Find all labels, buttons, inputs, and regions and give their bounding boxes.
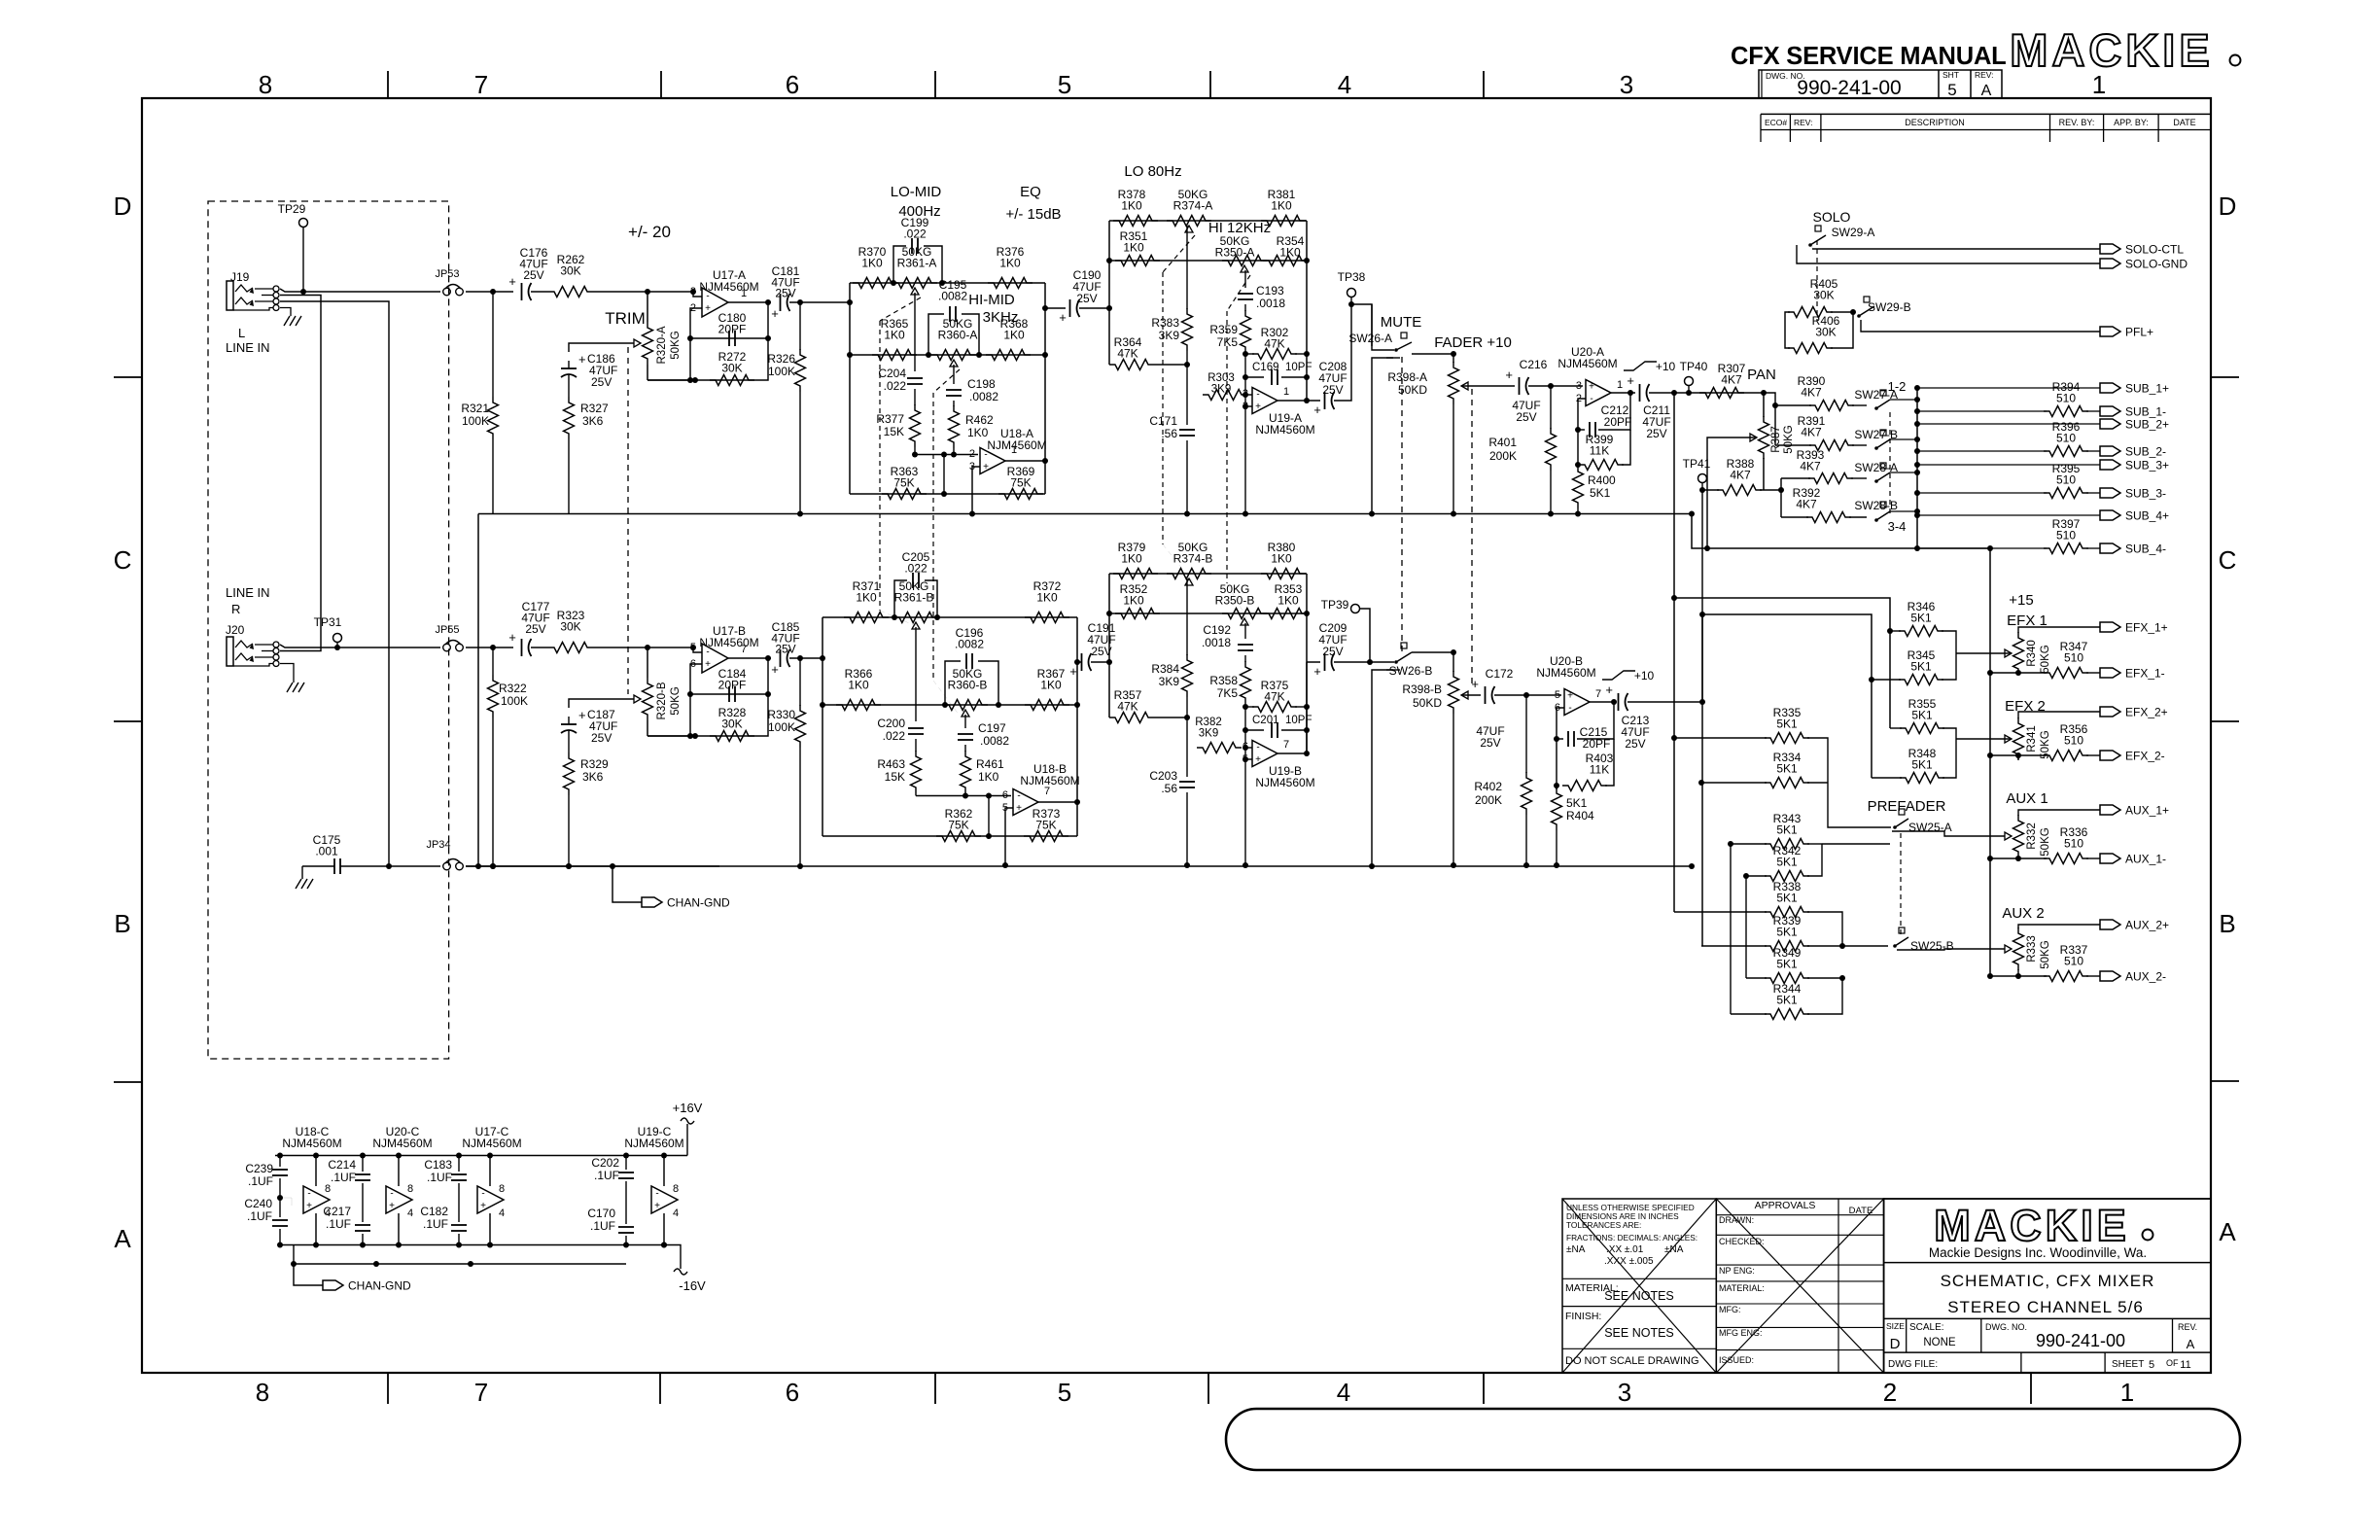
svg-text:.1UF: .1UF: [331, 1171, 356, 1184]
svg-text:TP31: TP31: [314, 615, 342, 629]
resistor R376: [988, 278, 1032, 289]
power gnd rail: [280, 1244, 664, 1246]
svg-text:1K0: 1K0: [884, 329, 905, 342]
svg-text:SCALE:: SCALE:: [1909, 1322, 1944, 1333]
svg-text:.0018: .0018: [1256, 297, 1285, 310]
svg-text:30K: 30K: [1815, 326, 1836, 339]
ground at J20 sleeve: [280, 664, 294, 683]
svg-text:47K: 47K: [1264, 690, 1284, 704]
svg-text:R377: R377: [876, 412, 904, 426]
wire to U18-B pin6: [916, 795, 1011, 797]
trim wiper wire to C186: [569, 343, 634, 352]
solo ctl wire: [1812, 248, 2100, 250]
plus10 symbol B: [1602, 671, 1635, 680]
svg-text:-: -: [1017, 791, 1020, 802]
capacitor C190: [1069, 299, 1071, 317]
wire C208 up to TP38 line: [1334, 304, 1351, 401]
capacitor C185: [780, 649, 782, 667]
connector SUB_2+: [2100, 419, 2120, 429]
svg-text:SUB_1+: SUB_1+: [2125, 382, 2169, 396]
svg-text:25V: 25V: [1322, 383, 1343, 397]
svg-text:NJM4560M: NJM4560M: [699, 636, 758, 649]
svg-text:4K7: 4K7: [1800, 460, 1821, 473]
svg-text:7: 7: [1283, 739, 1289, 751]
dashed gang solo switches: [1816, 240, 1818, 321]
svg-text:510: 510: [2056, 529, 2076, 542]
post fader buses: [1671, 390, 1677, 396]
gnd bus junction dots: [566, 863, 572, 869]
svg-text:PFL+: PFL+: [2125, 326, 2153, 339]
svg-text:1K0: 1K0: [861, 257, 883, 270]
svg-text:25V: 25V: [1646, 427, 1666, 440]
resistor R379: [1113, 569, 1158, 579]
pot R360-B: [942, 702, 948, 708]
U18-C pin8 wire: [315, 1156, 317, 1187]
svg-text:+: +: [1567, 691, 1573, 702]
U18-C pin4 wire: [315, 1213, 317, 1245]
svg-text:NJM4560M: NJM4560M: [624, 1137, 683, 1150]
svg-text:APPROVALS: APPROVALS: [1755, 1200, 1816, 1211]
svg-text:SW29-A: SW29-A: [1832, 226, 1875, 239]
jumper JP34: [443, 862, 451, 870]
EQ A mid row: [850, 354, 1045, 356]
svg-text:C: C: [114, 545, 132, 575]
svg-text:510: 510: [2056, 473, 2076, 487]
resistor R358: [1244, 655, 1246, 662]
sub2+ wire: [1914, 421, 1920, 427]
svg-text:100K: 100K: [768, 720, 795, 734]
svg-text:.1UF: .1UF: [594, 1169, 619, 1182]
svg-text:R350-B: R350-B: [1215, 594, 1255, 608]
bus from B fader out down: [1701, 614, 1703, 946]
svg-text:510: 510: [2064, 955, 2083, 968]
dashed gang SW25: [1900, 833, 1902, 938]
resistor R461: [964, 745, 966, 752]
svg-text:R330: R330: [767, 708, 795, 721]
svg-text:ISSUED:: ISSUED:: [1719, 1355, 1754, 1365]
mute shunt contact: [1386, 357, 1400, 359]
resistor R336: [2017, 857, 2019, 858]
resistor R337: [2017, 969, 2019, 976]
LO80 B block left edge: [1108, 574, 1110, 717]
capacitor C196: [945, 661, 961, 705]
connector SUB_4-: [2100, 543, 2120, 553]
sub3+ wire: [1914, 462, 1920, 468]
svg-text:R398-A: R398-A: [1387, 370, 1427, 384]
svg-text:R374-A: R374-A: [1173, 199, 1213, 213]
svg-text:R360-A: R360-A: [938, 329, 978, 342]
svg-text:LO 80Hz: LO 80Hz: [1124, 163, 1181, 180]
svg-text:4: 4: [673, 1207, 679, 1219]
resistor R339: [1765, 941, 1809, 952]
op-amp U19-A: [1252, 388, 1277, 414]
svg-text:DWG FILE:: DWG FILE:: [1888, 1359, 1938, 1370]
resistor R322: [492, 647, 494, 675]
svg-text:3K6: 3K6: [582, 414, 604, 428]
svg-text:1: 1: [1617, 379, 1623, 391]
svg-text:TP29: TP29: [278, 202, 306, 216]
bus from A fader out down: [1673, 393, 1675, 912]
svg-text:.0082: .0082: [980, 734, 1009, 748]
svg-text:5: 5: [1058, 70, 1071, 99]
svg-text:1K0: 1K0: [1271, 199, 1292, 213]
svg-text:C203: C203: [1149, 769, 1177, 783]
svg-text:DWG. NO.: DWG. NO.: [1985, 1322, 2027, 1332]
aux2 send wire: [1897, 949, 2005, 950]
svg-text:TP39: TP39: [1321, 598, 1349, 612]
svg-text:4: 4: [1337, 1378, 1350, 1407]
svg-text:EFX_2-: EFX_2-: [2125, 750, 2165, 763]
svg-text:AUX_2+: AUX_2+: [2125, 919, 2169, 932]
svg-text:R327: R327: [580, 402, 609, 415]
connector EFX_2+: [2100, 707, 2120, 717]
svg-text:3: 3: [1576, 380, 1582, 392]
svg-text:+: +: [771, 662, 779, 677]
svg-text:+16V: +16V: [673, 1101, 703, 1115]
svg-text:MFG:: MFG:: [1719, 1305, 1741, 1314]
svg-text:L: L: [238, 326, 245, 340]
U20-B output: [1590, 701, 1614, 703]
resistor R330: [799, 658, 801, 706]
svg-text:NJM4560M: NJM4560M: [282, 1137, 341, 1150]
svg-text:D: D: [1890, 1336, 1901, 1352]
svg-text:LINE IN: LINE IN: [226, 340, 270, 355]
sub assign feed wires: [1764, 393, 1775, 445]
svg-text:10PF: 10PF: [1285, 715, 1312, 726]
capacitor C201: [1244, 707, 1246, 730]
svg-text:APP. BY:: APP. BY:: [2114, 118, 2149, 127]
PAN pot R387: [1763, 393, 1765, 417]
svg-text:SUB_2-: SUB_2-: [2125, 445, 2166, 459]
svg-text:OF: OF: [2166, 1358, 2179, 1368]
resistor R399: [1579, 460, 1624, 471]
resistor R370: [853, 278, 897, 289]
svg-text:NONE: NONE: [1923, 1337, 1956, 1348]
capacitor C187: [561, 723, 577, 725]
wire into pin3 U17-A: [647, 292, 702, 297]
svg-text:R320-A: R320-A: [656, 326, 668, 364]
svg-text:J20: J20: [226, 623, 245, 637]
fader pot R398-A: [1449, 362, 1459, 404]
svg-text:5: 5: [1947, 81, 1956, 99]
capacitor C203: [1186, 697, 1188, 777]
svg-text:4K7: 4K7: [1801, 386, 1822, 400]
svg-text:SCHEMATIC, CFX MIXER: SCHEMATIC, CFX MIXER: [1941, 1272, 2155, 1290]
resistor R323: [548, 643, 593, 653]
resistor R326: [799, 302, 801, 350]
wire R262 to trim node: [593, 291, 647, 293]
U19-A pin3 riser to bus: [1245, 405, 1252, 407]
svg-text:2: 2: [1883, 1378, 1897, 1407]
svg-text:5K1: 5K1: [1776, 958, 1798, 971]
svg-text:1-2: 1-2: [1888, 379, 1907, 394]
svg-text:EQ: EQ: [1020, 184, 1041, 200]
svg-text:A: A: [1981, 83, 1992, 99]
svg-text:1K0: 1K0: [967, 426, 989, 439]
svg-text:SUB_3-: SUB_3-: [2125, 487, 2166, 501]
jumper JP55: [443, 644, 451, 651]
svg-text:TP40: TP40: [1680, 360, 1708, 373]
svg-text:SUB_4+: SUB_4+: [2125, 509, 2169, 523]
svg-text:EFX_1-: EFX_1-: [2125, 667, 2165, 681]
svg-text:R402: R402: [1474, 780, 1502, 793]
trim pot R320-B: [647, 647, 648, 678]
resistor R402: [1525, 695, 1527, 773]
input section dashed box: [208, 201, 449, 1059]
svg-text:LINE IN: LINE IN: [226, 585, 270, 600]
switch SW25-A: [1893, 825, 1897, 829]
resistor R364: [1108, 364, 1110, 366]
switch B out to fader: [1412, 652, 1453, 672]
svg-text:SEE NOTES: SEE NOTES: [1604, 1289, 1674, 1303]
svg-text:±NA: ±NA: [1664, 1244, 1684, 1255]
resistor R262: [548, 287, 593, 297]
svg-text:JP34: JP34: [426, 839, 450, 851]
svg-text:20PF: 20PF: [718, 679, 747, 692]
svg-text:510: 510: [2064, 651, 2083, 665]
svg-text:25V: 25V: [1625, 737, 1645, 751]
svg-text:+: +: [1255, 402, 1261, 412]
resistor R372: [1025, 612, 1069, 623]
svg-text:+: +: [508, 630, 516, 645]
wire J19 ring bus down: [280, 296, 321, 651]
resistor R365: [872, 350, 917, 361]
svg-text:HI-MID: HI-MID: [968, 292, 1015, 308]
resistor R377: [914, 389, 916, 405]
svg-text:5K1: 5K1: [1776, 892, 1798, 905]
svg-text:D: D: [114, 192, 132, 221]
U19-A output: [1277, 400, 1307, 402]
svg-text:R341: R341: [2026, 725, 2038, 752]
svg-text:4: 4: [499, 1207, 505, 1219]
svg-text:11K: 11K: [1590, 444, 1609, 458]
connector AUX_2-: [2100, 971, 2120, 981]
dashed gang HI pots: [1227, 275, 1250, 311]
svg-text:NJM4560M: NJM4560M: [1557, 357, 1617, 370]
svg-text:7: 7: [474, 1378, 488, 1407]
svg-text:8: 8: [325, 1183, 331, 1195]
switch SW29-B: [1857, 314, 1861, 318]
svg-text:R401: R401: [1488, 436, 1517, 449]
svg-text:20PF: 20PF: [1604, 415, 1632, 429]
svg-text:+: +: [1313, 664, 1321, 679]
svg-text:1: 1: [1011, 444, 1017, 456]
resistor R394: [1914, 408, 1920, 414]
wire to U18-A pin2: [915, 454, 978, 456]
resistor R303: [1244, 377, 1246, 395]
svg-text:+: +: [389, 1201, 395, 1211]
tolerance block: [1562, 1199, 1716, 1373]
switch SW28-B: [1874, 518, 1878, 522]
svg-text:200K: 200K: [1475, 793, 1502, 807]
LO80 A block left edge: [1108, 221, 1110, 365]
svg-text:B: B: [114, 909, 130, 938]
svg-text:EFX_1+: EFX_1+: [2125, 621, 2168, 635]
op-amp U17-A: [702, 288, 728, 317]
resistor R321: [492, 292, 494, 397]
svg-text:NJM4560M: NJM4560M: [1255, 776, 1314, 789]
svg-text:6: 6: [786, 70, 799, 99]
resistor R355: [1900, 723, 1944, 734]
svg-text:-: -: [1590, 394, 1592, 404]
svg-text:11K: 11K: [1590, 763, 1609, 777]
svg-text:MFG ENG:: MFG ENG:: [1719, 1328, 1763, 1338]
sub collector bus: [1916, 388, 1918, 548]
svg-text:1K0: 1K0: [1003, 329, 1025, 342]
resistor R369: [998, 489, 1043, 500]
sub1+ wire: [1914, 385, 1920, 391]
svg-text:.1UF: .1UF: [248, 1174, 273, 1188]
svg-text:4: 4: [407, 1207, 413, 1219]
CHAN-GND connector B bus: [612, 866, 642, 902]
connector SUB_1+: [2100, 383, 2120, 393]
U18-A pin3 to bus: [972, 467, 980, 514]
svg-text:-16V: -16V: [679, 1278, 706, 1293]
connector EFX_2-: [2100, 751, 2120, 760]
prefader wire to SW25-A: [1828, 783, 1891, 827]
svg-text:50KG: 50KG: [1783, 425, 1795, 453]
svg-text:CFX SERVICE MANUAL: CFX SERVICE MANUAL: [1731, 43, 2007, 70]
svg-text:6: 6: [1002, 789, 1008, 801]
svg-text:30K: 30K: [560, 264, 580, 278]
resistor R359: [1244, 304, 1246, 311]
EQ A top row wire: [850, 282, 1045, 284]
svg-text:.0082: .0082: [969, 390, 998, 403]
pot R360-A: [926, 352, 931, 358]
capacitor C177: [521, 639, 523, 656]
switch SW28-A: [1874, 479, 1878, 483]
svg-text:1K0: 1K0: [1036, 591, 1058, 605]
svg-text:.022: .022: [904, 562, 927, 576]
U18-B pin5 to bus: [1005, 808, 1013, 865]
svg-text:C171: C171: [1149, 414, 1177, 428]
channel A line to mute switch: [1351, 304, 1372, 346]
svg-text:6: 6: [786, 1378, 799, 1407]
svg-text:8: 8: [407, 1183, 413, 1195]
resistor R367: [1025, 700, 1069, 711]
svg-text:7K5: 7K5: [1217, 686, 1239, 700]
svg-text:R384: R384: [1151, 662, 1179, 676]
svg-text:3K9: 3K9: [1159, 329, 1180, 342]
capacitor C193: [1244, 270, 1246, 288]
LO80 B second row: [1109, 612, 1307, 614]
connector AUX_1+: [2100, 805, 2120, 815]
resistor R400: [1577, 465, 1579, 468]
svg-text:510: 510: [2064, 837, 2083, 851]
svg-text:C201: C201: [1252, 715, 1279, 726]
resistor R352: [1115, 609, 1160, 619]
svg-text:25V: 25V: [775, 287, 795, 300]
svg-text:1: 1: [1283, 386, 1289, 398]
capacitor C176: [521, 283, 523, 300]
resistor R335: [1765, 733, 1809, 744]
svg-text:5K1: 5K1: [1910, 612, 1932, 625]
svg-text:3K9: 3K9: [1199, 728, 1218, 740]
dashed gang mute switches: [1401, 357, 1403, 655]
svg-text:4K7: 4K7: [1721, 373, 1742, 387]
trim pot R320-A: [647, 292, 648, 322]
svg-text:+: +: [1589, 382, 1594, 393]
svg-text:SUB_1-: SUB_1-: [2125, 405, 2166, 419]
svg-text:100K: 100K: [501, 694, 528, 708]
feedback loop U17-A: [690, 308, 702, 380]
svg-text:R340: R340: [2026, 640, 2038, 667]
svg-text:Mackie Designs Inc. Woodinvi: Mackie Designs Inc. Woodinville, Wa.: [1929, 1245, 2147, 1260]
svg-text:50KG: 50KG: [2040, 827, 2051, 856]
svg-text:R387: R387: [1770, 426, 1782, 453]
svg-text:1K0: 1K0: [856, 591, 877, 605]
capacitor C186: [561, 367, 577, 369]
svg-text:1K0: 1K0: [1279, 246, 1301, 260]
svg-text:C217: C217: [323, 1205, 351, 1218]
resistor R383: [1186, 226, 1188, 309]
capacitor C184: [728, 686, 730, 702]
switch A out to fader: [1412, 354, 1453, 363]
capacitor C198: [953, 365, 955, 384]
svg-text:-: -: [390, 1189, 393, 1200]
svg-text:+: +: [578, 708, 586, 722]
resistor R395: [1914, 490, 1920, 496]
svg-text:11: 11: [2180, 1359, 2190, 1371]
svg-text:R383: R383: [1151, 316, 1179, 330]
op-amp U20-A: [1586, 380, 1611, 406]
svg-text:REV:: REV:: [1975, 70, 1994, 80]
svg-text:.001: .001: [315, 845, 338, 858]
EQ B bottom row: [822, 835, 1077, 837]
wire U17-B out: [728, 657, 771, 659]
bottom stadium outline: [1226, 1409, 2240, 1470]
pot R361-A: [891, 280, 896, 286]
svg-text:NJM4560M: NJM4560M: [372, 1137, 432, 1150]
svg-text:75K: 75K: [948, 819, 968, 832]
svg-text:1K0: 1K0: [848, 679, 869, 692]
op-amp U18-B: [1013, 789, 1038, 816]
svg-text:SW28-B: SW28-B: [1854, 499, 1898, 512]
svg-text:SW25-B: SW25-B: [1910, 939, 1954, 953]
svg-text:C169: C169: [1252, 362, 1279, 373]
svg-text:8: 8: [499, 1183, 505, 1195]
svg-text:100K: 100K: [462, 414, 489, 428]
approvals block: [1716, 1199, 1883, 1373]
dashed gang EQ mid pots: [880, 297, 921, 321]
zone ticks bottom: [387, 1373, 389, 1404]
svg-text:+: +: [654, 1201, 660, 1211]
chan bus A: [478, 513, 1692, 515]
svg-text:+: +: [1255, 754, 1261, 765]
svg-text:NJM4560M: NJM4560M: [699, 280, 758, 294]
svg-text:A: A: [2187, 1337, 2195, 1351]
svg-text:SOLO-GND: SOLO-GND: [2125, 258, 2187, 271]
ground at C175: [296, 879, 301, 889]
capacitor C169: [1244, 354, 1246, 377]
svg-text:10PF: 10PF: [1285, 362, 1312, 373]
resistor R401: [1550, 386, 1552, 429]
connector PFL+: [2100, 327, 2120, 336]
title block main: [1884, 1199, 2211, 1373]
svg-text:C200: C200: [877, 717, 905, 730]
svg-text:SUB_3+: SUB_3+: [2125, 459, 2169, 472]
dashed gang EQ hi-mid pots: [933, 369, 960, 393]
svg-text:AUX_1+: AUX_1+: [2125, 804, 2169, 818]
svg-text:5: 5: [1555, 689, 1560, 701]
pot R350-A: [1222, 256, 1267, 266]
zone ticks right: [2211, 376, 2239, 378]
svg-text:75K: 75K: [1035, 819, 1056, 832]
svg-text:15K: 15K: [885, 770, 905, 784]
svg-text:.0018: .0018: [1202, 636, 1231, 649]
resistor R463: [915, 739, 917, 752]
svg-text:100K: 100K: [768, 365, 795, 378]
